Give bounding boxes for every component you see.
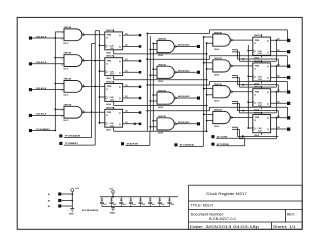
svg-text:PRE: PRE [255, 66, 260, 68]
svg-text:1: 1 [62, 84, 63, 86]
svg-text:U2:A: U2:A [214, 48, 219, 51]
svg-text:GND0: GND0 [110, 212, 115, 214]
svg-text:1: 1 [62, 58, 63, 60]
svg-text:ADJ(0) ADJ: ADJ(0) ADJ [178, 121, 190, 124]
svg-text:Q2: Q2 [277, 90, 280, 92]
svg-text:2: 2 [62, 64, 63, 66]
svg-text:U2:C: U2:C [64, 43, 69, 45]
svg-text:3u3: 3u3 [142, 204, 145, 206]
svg-text:74HC74: 74HC74 [106, 55, 114, 58]
svg-text:U2:B: U2:B [158, 81, 163, 83]
svg-text:GND: GND [69, 214, 74, 216]
svg-text:74HC74: 74HC74 [254, 34, 262, 37]
svg-text:A3: A3 [48, 205, 50, 208]
svg-text:74HC74: 74HC74 [254, 112, 262, 115]
svg-text:74HC08: 74HC08 [64, 52, 72, 55]
svg-text:U2:A: U2:A [214, 74, 219, 77]
svg-text:PRE: PRE [107, 112, 112, 114]
svg-text:Clock Register M217: Clock Register M217 [206, 192, 247, 196]
svg-text:PRE: PRE [255, 40, 260, 42]
svg-text:Q2: Q2 [277, 64, 280, 66]
svg-text:74HC08: 74HC08 [64, 103, 72, 106]
svg-text:PRE: PRE [107, 35, 112, 37]
svg-text:3u3: 3u3 [152, 204, 155, 206]
svg-text:3u3: 3u3 [132, 204, 135, 206]
svg-text:3u3: 3u3 [113, 204, 116, 206]
svg-text:U2:C: U2:C [64, 69, 69, 71]
svg-text:TITLE: M217I: TITLE: M217I [191, 204, 214, 208]
svg-text:Q2: Q2 [277, 39, 280, 41]
svg-text:B-CB-M217-0-1: B-CB-M217-0-1 [209, 217, 236, 221]
svg-text:PRE: PRE [255, 91, 260, 93]
svg-text:3u3: 3u3 [171, 204, 174, 206]
svg-text:U2:A: U2:A [214, 125, 219, 128]
svg-text:74HC74: 74HC74 [254, 60, 262, 63]
svg-text:74HC08: 74HC08 [158, 115, 166, 118]
svg-text:74HC08: 74HC08 [214, 31, 222, 34]
svg-text:2: 2 [62, 39, 63, 41]
svg-text:U2:B: U2:B [158, 55, 163, 57]
svg-text:U2:C: U2:C [64, 94, 69, 96]
svg-text:U4:A: U4:A [106, 129, 111, 132]
svg-text:A2: A2 [48, 199, 50, 202]
svg-text:U2:A: U2:A [214, 99, 219, 102]
svg-text:74HC74: 74HC74 [106, 29, 114, 32]
svg-text:74HC08: 74HC08 [158, 38, 166, 41]
svg-text:Q2: Q2 [277, 76, 280, 78]
svg-text:74HC74: 74HC74 [254, 86, 262, 89]
svg-text:(PLT-NE SHIELD): (PLT-NE SHIELD) [82, 210, 99, 212]
svg-text:Q2: Q2 [277, 127, 280, 129]
svg-text:U2:C: U2:C [64, 120, 69, 122]
svg-text:74HC08: 74HC08 [64, 78, 72, 81]
svg-text:74HC08: 74HC08 [158, 64, 166, 67]
svg-text:Sheet: 1/1: Sheet: 1/1 [273, 225, 296, 229]
svg-text:U2:B: U2:B [158, 133, 163, 135]
svg-text:3u3: 3u3 [103, 204, 106, 206]
svg-text:Q2: Q2 [277, 116, 280, 118]
svg-text:REV:: REV: [287, 212, 295, 216]
svg-text:74HC08: 74HC08 [64, 26, 72, 29]
svg-text:A1: A1 [48, 193, 50, 196]
svg-text:74HC74: 74HC74 [106, 81, 114, 84]
svg-text:VCC: VCC [110, 189, 115, 191]
svg-text:3u3: 3u3 [161, 204, 164, 206]
svg-text:1: 1 [62, 33, 63, 35]
svg-text:ADJ(0) ADJ: ADJ(0) ADJ [178, 95, 190, 98]
svg-text:PRE: PRE [107, 60, 112, 62]
svg-text:Date: 3/03/2013 04:03:18p: Date: 3/03/2013 04:03:18p [190, 225, 260, 229]
svg-text:1: 1 [62, 110, 63, 112]
svg-text:PRE: PRE [255, 117, 260, 119]
svg-text:U4:A: U4:A [106, 77, 111, 80]
svg-text:74HC08: 74HC08 [214, 109, 222, 112]
svg-text:U2:B: U2:B [158, 107, 163, 109]
svg-text:U4:A: U4:A [106, 103, 111, 106]
svg-text:PRE: PRE [107, 86, 112, 88]
svg-text:Q2: Q2 [277, 101, 280, 103]
svg-text:74HC74: 74HC74 [106, 106, 114, 109]
svg-text:2: 2 [62, 116, 63, 118]
svg-text:74HC08: 74HC08 [214, 83, 222, 86]
svg-text:2: 2 [62, 90, 63, 92]
svg-text:74HC08: 74HC08 [214, 57, 222, 60]
svg-text:74HC08: 74HC08 [158, 89, 166, 92]
svg-text:ADJ(0) ADJ: ADJ(0) ADJ [178, 44, 190, 47]
svg-text:U4:A: U4:A [106, 51, 111, 54]
svg-text:Q2: Q2 [277, 50, 280, 52]
svg-text:3u3: 3u3 [123, 204, 126, 206]
svg-text:ADJ(0) ADJ: ADJ(0) ADJ [178, 69, 190, 72]
